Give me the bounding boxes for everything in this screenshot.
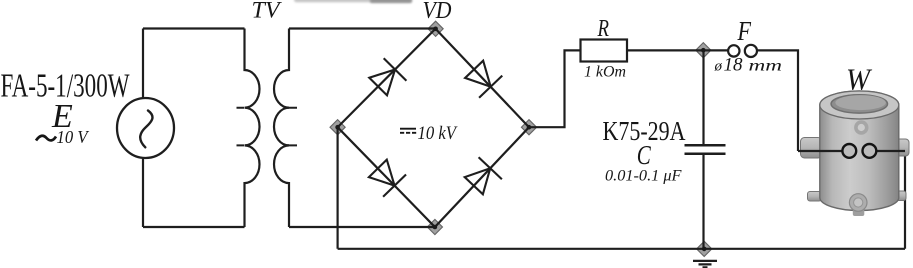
- svg-text:10 kV: 10 kV: [418, 123, 459, 144]
- svg-text:10 V: 10 V: [57, 127, 90, 147]
- svg-text:VD: VD: [423, 0, 452, 24]
- svg-text:R: R: [597, 16, 610, 42]
- svg-text:W: W: [846, 62, 873, 97]
- svg-text:C: C: [637, 140, 652, 170]
- svg-text:1 kOm: 1 kOm: [584, 63, 626, 80]
- svg-text:0.01-0.1 μF: 0.01-0.1 μF: [605, 168, 682, 185]
- svg-text:mm: mm: [749, 58, 783, 75]
- svg-text:ø: ø: [714, 59, 723, 75]
- svg-text:F: F: [737, 15, 752, 46]
- svg-text:TV: TV: [252, 0, 283, 23]
- svg-text:18: 18: [724, 55, 744, 76]
